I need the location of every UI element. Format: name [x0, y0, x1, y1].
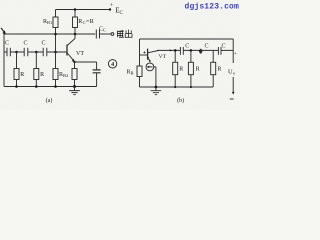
- collector slant: [67, 39, 75, 46]
- wire: base chain line y=52: [4, 51, 67, 53]
- svg-text:RB: RB: [127, 70, 134, 76]
- circled 4: [108, 60, 116, 68]
- svg-text:VT: VT: [76, 51, 84, 57]
- svg-text:4: 4: [111, 62, 114, 68]
- wire: RC top stub: [74, 10, 76, 18]
- wire: emitter to CE: [75, 62, 97, 70]
- wire: bottom rail (a): [4, 86, 97, 88]
- svg-text:C: C: [23, 40, 27, 46]
- resistor R3 (b): [211, 62, 216, 74]
- resistor R1 (b): [173, 62, 178, 74]
- wire: top supply rail: [56, 9, 111, 11]
- svg-text:R: R: [40, 72, 44, 78]
- node: junction dot on top rail at RC: [74, 8, 77, 11]
- transistor VT (b): base bar: [147, 49, 149, 60]
- svg-text:+: +: [234, 51, 237, 57]
- svg-text:C: C: [5, 40, 9, 46]
- resistor R2 (a): [34, 69, 39, 80]
- svg-text:R: R: [20, 72, 24, 78]
- arrow inside circle: [148, 66, 153, 68]
- emitter slant: [67, 53, 73, 60]
- resistor R1 (a): [14, 69, 19, 80]
- node: output open circle: [111, 33, 114, 36]
- svg-text:dgjs123.com: dgjs123.com: [185, 3, 240, 12]
- wire: RB1 top stub: [55, 10, 57, 18]
- collector slant (b): [148, 50, 159, 52]
- capacitor C1 plates: [7, 48, 10, 56]
- svg-text:(b): (b): [177, 97, 184, 104]
- resistor RE: [72, 69, 77, 80]
- wire: circle to ground column: [154, 67, 156, 87]
- wire: CC to output terminal: [100, 33, 112, 35]
- resistor RB2: [53, 69, 58, 80]
- label: output chinese: [117, 30, 132, 38]
- capacitor C3 (b): [218, 47, 221, 55]
- emitter slant (b) with arrow: [148, 57, 150, 61]
- svg-text:(a): (a): [46, 97, 53, 104]
- capacitor C3 plates: [43, 48, 47, 56]
- wire: left vertical (b): [139, 39, 141, 87]
- svg-text:RC=R: RC=R: [78, 19, 94, 25]
- resistor R2 (b): [188, 62, 193, 74]
- node dots on chain: [15, 51, 18, 54]
- svg-text:VT: VT: [159, 54, 167, 60]
- node dot + stub R3 (b): [212, 50, 214, 62]
- ground (a): [69, 87, 80, 95]
- node: dot at collector column: [74, 33, 77, 36]
- wire: bottom rail (b): [140, 86, 214, 88]
- resistor RB1: [53, 17, 58, 28]
- svg-text:C: C: [204, 43, 208, 49]
- node: +EC supply terminal dot: [109, 8, 111, 10]
- wire: left vertical edge: [3, 34, 5, 87]
- node dot + stub R1 (b): [174, 49, 177, 52]
- svg-text:C: C: [41, 40, 45, 46]
- wire: top rail (b): [140, 38, 234, 40]
- wire: CE bottom: [96, 73, 98, 87]
- label minus (b): [230, 98, 234, 100]
- node dot + stub R2 (b): [190, 49, 193, 52]
- ground (b): [151, 87, 162, 95]
- capacitor C2 plates: [24, 48, 28, 56]
- svg-text:R: R: [217, 67, 221, 73]
- resistor RB (b): [137, 66, 142, 77]
- capacitor CC plates: [96, 30, 99, 39]
- svg-text:C: C: [185, 43, 189, 49]
- wire: resistor bottoms to rail: [17, 80, 75, 87]
- capacitor C1 (b): [180, 47, 183, 55]
- resistor RC: [73, 17, 78, 28]
- node dots on bottom rail: [15, 85, 18, 88]
- svg-text:+: +: [110, 3, 114, 9]
- wire: base wire (b): [140, 54, 148, 56]
- svg-text:CC: CC: [99, 27, 106, 33]
- node: emitter dot: [73, 61, 75, 63]
- capacitor CE plates: [93, 70, 101, 73]
- svg-text:R: R: [196, 67, 200, 73]
- svg-text:RB1: RB1: [43, 19, 52, 25]
- current source circle (b): [146, 63, 154, 71]
- current arrow on chain: [170, 49, 173, 51]
- wire: horizontal input/output line y=34: [4, 33, 95, 35]
- node: dot at x=55.5 on line: [54, 33, 57, 36]
- wire: right vertical with Uo arrow: [232, 39, 234, 93]
- svg-text:R: R: [179, 67, 183, 73]
- input arrow top-left: [1, 28, 4, 32]
- wire: chain line (b): [157, 49, 233, 51]
- wire: RB1 bottom to base node: [55, 28, 57, 53]
- svg-text:RB2: RB2: [59, 72, 68, 78]
- transistor VT (a): base bar: [66, 45, 68, 56]
- capacitor C2 (b) small: [199, 50, 202, 53]
- wire: stubs down to resistor row: [17, 52, 75, 69]
- svg-text:C: C: [221, 43, 225, 49]
- wire: RC bottom to collector: [74, 28, 76, 39]
